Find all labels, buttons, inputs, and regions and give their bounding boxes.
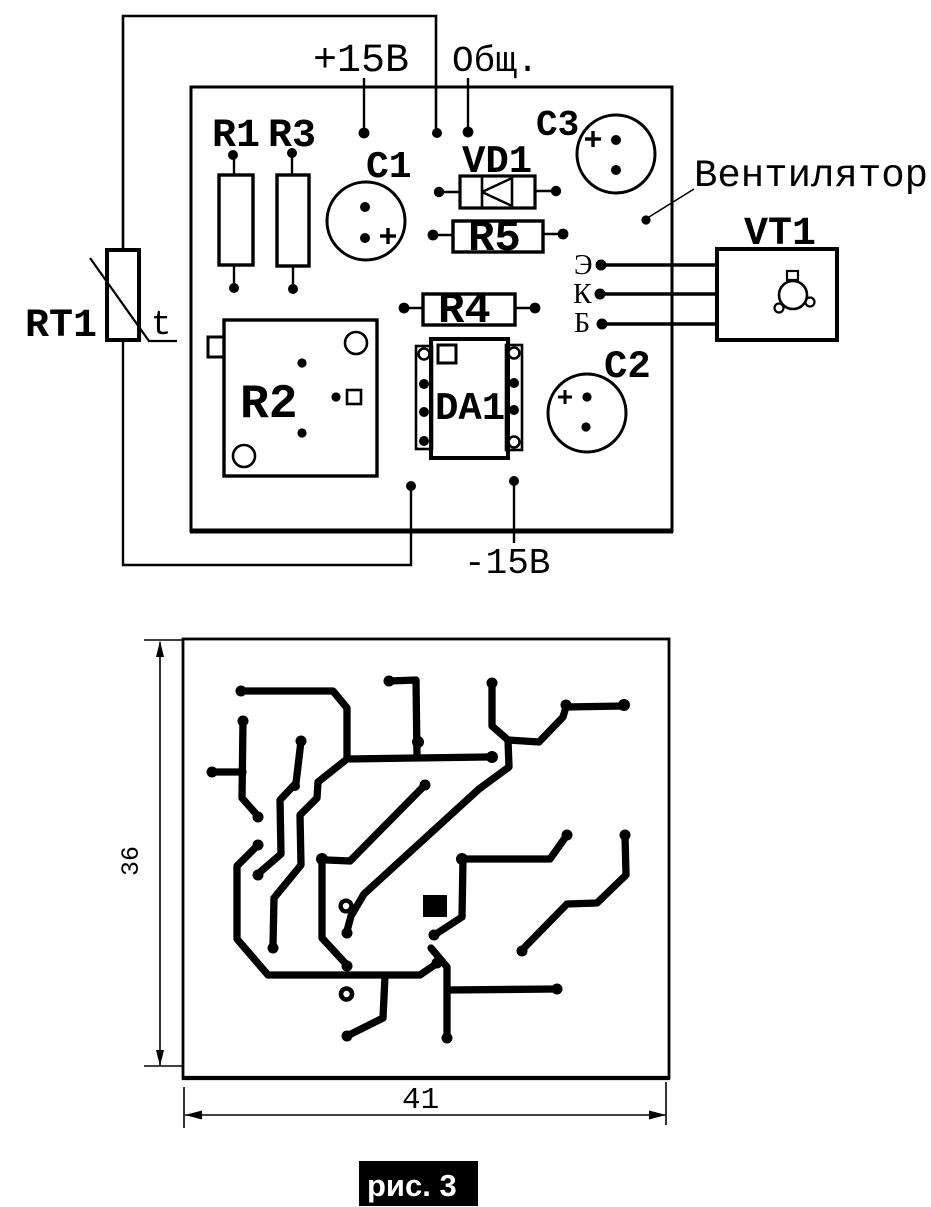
- resistor R1: [219, 156, 253, 287]
- pcb pads (filled dots): [207, 676, 631, 1044]
- pad J top: [562, 830, 573, 841]
- resistor R4: [406, 294, 532, 325]
- svg-text:C2: C2: [604, 345, 651, 389]
- svg-text:RT1: RT1: [25, 304, 97, 349]
- pad G mid: [561, 700, 572, 711]
- board outline (component side): [190, 87, 673, 531]
- pad M: [342, 1031, 353, 1042]
- via hole 2: [341, 989, 352, 1000]
- svg-text:Вентилятор: Вентилятор: [694, 154, 928, 198]
- trace E2 long left descent: [273, 759, 347, 945]
- thermistor RT1 diagonal symbol: [90, 258, 177, 341]
- pad N end: [442, 1033, 453, 1044]
- svg-text:R2: R2: [240, 378, 298, 432]
- node K: [595, 289, 606, 300]
- C1 pin lower: [360, 233, 370, 243]
- C2 pin upper: [582, 392, 591, 401]
- R3 pin bottom: [288, 284, 298, 294]
- capacitor C3: [577, 115, 655, 193]
- wire E to VT1: [601, 263, 717, 266]
- pad D end: [253, 870, 264, 881]
- trace ground path: [237, 845, 436, 975]
- label C3: [536, 105, 579, 146]
- label C2: [604, 345, 651, 389]
- pad F top: [316, 853, 328, 865]
- label RT1: [25, 304, 97, 349]
- capacitor C2: [548, 374, 626, 452]
- node Obshch pad: [463, 127, 474, 138]
- trimmer R2 body: [208, 320, 377, 476]
- pad N branch: [552, 984, 563, 995]
- dimension line width 41: [184, 1082, 666, 1128]
- pad ground end: [432, 958, 443, 969]
- wire +15V loop from RT1 top to board: [123, 16, 436, 250]
- trace M riser: [347, 976, 385, 1036]
- svg-text:R1: R1: [212, 114, 260, 159]
- C1 plus mark: [380, 228, 396, 244]
- svg-text:DA1: DA1: [435, 387, 505, 431]
- svg-text:К: К: [573, 279, 592, 310]
- label R4: [438, 286, 491, 336]
- pad G end: [342, 928, 353, 939]
- svg-text:C1: C1: [366, 146, 412, 189]
- R2 pin 3: [297, 428, 306, 437]
- pad F end: [342, 961, 353, 972]
- trace J: [436, 835, 567, 934]
- pad K end: [517, 946, 528, 957]
- R4 pin right: [530, 303, 541, 314]
- pad K top: [620, 830, 631, 841]
- pad E2 end: [268, 943, 279, 954]
- node E: [596, 260, 607, 271]
- pad A: [236, 686, 247, 697]
- pad G top: [487, 678, 498, 689]
- C2 pin lower: [581, 422, 590, 431]
- wire -15V: [513, 481, 515, 543]
- svg-text:41: 41: [402, 1083, 439, 1118]
- label +15V: [313, 39, 409, 84]
- pad main-horizontal end: [486, 751, 498, 763]
- svg-text:Э: Э: [574, 250, 592, 281]
- diode VD1: [443, 176, 553, 208]
- trace C stub: [212, 768, 243, 775]
- VD1 pin left: [434, 187, 444, 197]
- DA1 pin pads right: [509, 348, 520, 359]
- label C1: [366, 146, 412, 189]
- R3 pin top: [287, 148, 297, 158]
- trace F: [322, 860, 346, 964]
- VT1 footprint symbol: [775, 271, 815, 313]
- resistor R3: [277, 154, 309, 288]
- callout line to fan node: [649, 189, 694, 217]
- node B: [597, 319, 608, 330]
- wire from Obshch label: [467, 78, 469, 130]
- C3 pin lower: [611, 165, 621, 175]
- pad G right: [618, 699, 630, 711]
- svg-text:+15В: +15В: [313, 39, 409, 84]
- dimension line height 36: [144, 640, 182, 1066]
- pad D top: [296, 736, 307, 747]
- R4 pin left: [399, 303, 410, 314]
- resistor R5: [436, 221, 560, 252]
- R2 pin 2: [331, 392, 340, 401]
- pad J corner: [456, 853, 468, 865]
- wire B to VT1: [602, 322, 717, 325]
- trace G network: [347, 683, 509, 931]
- pcb board outline: [182, 639, 670, 1078]
- label R2: [240, 378, 298, 432]
- label -15V: [464, 543, 550, 584]
- pad B end: [253, 812, 264, 823]
- C3 pin upper: [611, 135, 621, 145]
- label Obshch (common): [452, 41, 538, 82]
- node +15V pad: [359, 128, 370, 139]
- caption text: [367, 1168, 457, 1203]
- svg-text:t: t: [151, 307, 171, 345]
- label Ventilyator (fan): [694, 154, 928, 198]
- label K (collector): [573, 279, 592, 310]
- square pad (pin 1 mark): [423, 895, 447, 917]
- pad ground start: [253, 840, 264, 851]
- via hole 1: [341, 901, 352, 912]
- R1 pin bottom: [229, 283, 239, 293]
- C1 pin upper: [360, 202, 370, 212]
- trace G branch: [508, 706, 623, 742]
- trace A top-left: [241, 691, 347, 757]
- label 41: [402, 1083, 439, 1118]
- label VT1: [744, 212, 816, 257]
- R1 pin top: [228, 150, 238, 160]
- svg-text:R5: R5: [468, 214, 521, 264]
- svg-text:VT1: VT1: [744, 212, 816, 257]
- node at wire end inside board: [432, 128, 442, 138]
- label B (base): [574, 308, 590, 339]
- DA1 pin pads left: [419, 349, 430, 360]
- label R1: [212, 114, 260, 159]
- R2 pin 1: [297, 358, 306, 367]
- C2 plus mark: [558, 390, 572, 404]
- trace D: [259, 741, 301, 873]
- pad B top: [238, 716, 249, 727]
- svg-text:VD1: VD1: [462, 140, 532, 184]
- R5 pin left: [428, 230, 439, 241]
- fan connection node: [641, 215, 650, 224]
- trace B left: [242, 721, 257, 815]
- pad J end: [429, 930, 440, 941]
- label R3: [268, 114, 316, 159]
- wire K to VT1: [600, 292, 717, 295]
- label t: [151, 307, 171, 345]
- label R5: [468, 214, 521, 264]
- svg-text:-15В: -15В: [464, 543, 550, 584]
- thermistor RT1 body: [107, 250, 139, 340]
- pcb traces: [212, 680, 626, 1037]
- label 36: [117, 846, 146, 876]
- svg-text:R3: R3: [268, 114, 316, 159]
- wire RT1 bottom to -15V node: [123, 340, 411, 565]
- VD1 pin right: [551, 186, 561, 196]
- transistor VT1 box: [717, 249, 837, 340]
- svg-text:Б: Б: [574, 308, 590, 339]
- label VD1: [462, 140, 532, 184]
- trace H diagonal: [327, 785, 425, 861]
- capacitor C1: [327, 182, 405, 260]
- R5 pin right: [558, 229, 569, 240]
- trace N: [431, 948, 556, 1037]
- node under R2: [406, 481, 416, 491]
- pad C: [207, 767, 218, 778]
- svg-text:рис. 3: рис. 3: [367, 1168, 457, 1203]
- C3 plus mark: [585, 131, 601, 147]
- svg-text:36: 36: [117, 846, 146, 876]
- svg-text:Общ.: Общ.: [452, 41, 538, 82]
- trace K: [522, 835, 626, 950]
- label DA1: [435, 387, 505, 431]
- wire from +15V label: [363, 78, 365, 131]
- pad E top: [384, 676, 395, 687]
- pad H: [420, 780, 431, 791]
- pad D mid: [290, 781, 300, 791]
- caption box ris.3: [359, 1161, 478, 1206]
- svg-text:R4: R4: [438, 286, 491, 336]
- svg-text:C3: C3: [536, 105, 579, 146]
- label E (emitter): [574, 250, 592, 281]
- trace main horizontal: [347, 757, 487, 759]
- node -15V: [509, 476, 519, 486]
- trace E vertical: [389, 680, 417, 757]
- pad E mid: [412, 736, 424, 748]
- op-amp DA1 body: [416, 339, 522, 458]
